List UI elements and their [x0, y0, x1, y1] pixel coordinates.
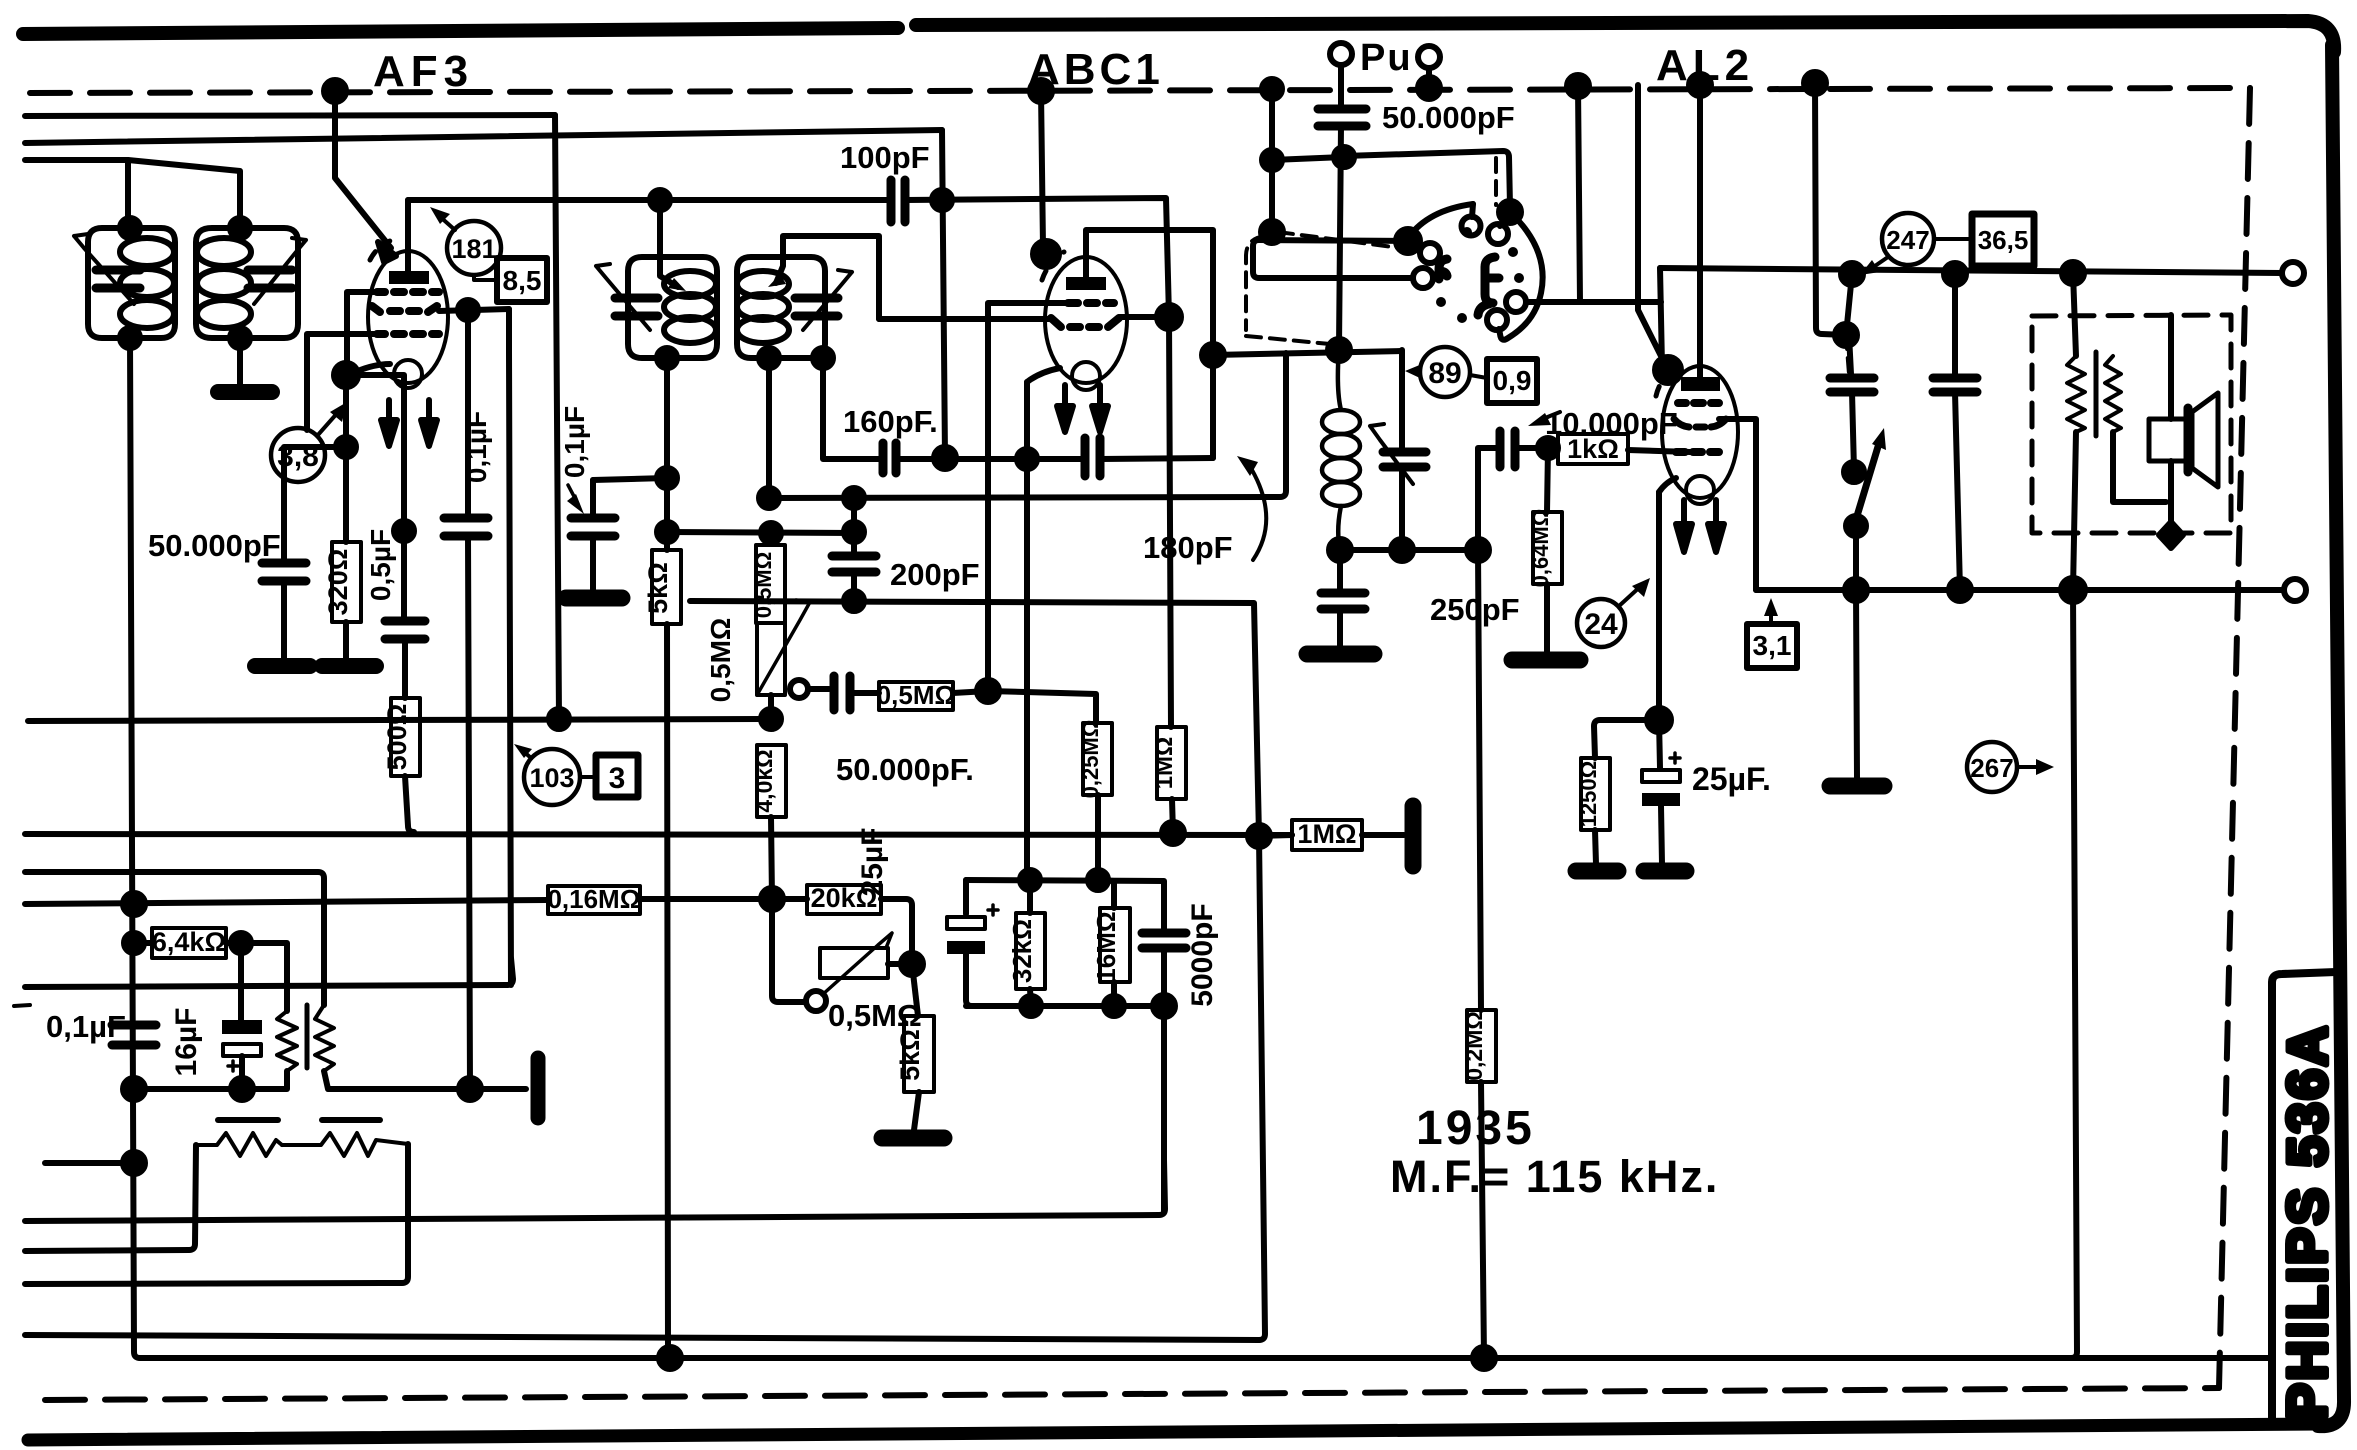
annotation arrow from 89: [1415, 370, 1420, 374]
svg-text:89: 89: [1428, 357, 1461, 390]
resistor 16M: [1100, 908, 1130, 982]
ground of L2: [218, 384, 272, 400]
node L4 bottom coil: [759, 348, 779, 368]
node rail273 x1955: [1944, 263, 1966, 285]
ground of 1250: [1576, 863, 1618, 880]
tube AF3 heater arrow right: [426, 400, 432, 428]
wire AF3 top cap lead: [405, 200, 411, 271]
capacitor output 2: [1933, 378, 1977, 392]
node AF3 on dashed frame: [324, 80, 346, 102]
node on dashed frame x1815: [1804, 72, 1826, 94]
node AVC bus at x1259: [1248, 825, 1270, 847]
wire switch to rail590: [1853, 526, 1859, 590]
svg-text:181: 181: [451, 234, 496, 264]
resistor 0,5M boxed horizontal: [850, 690, 879, 696]
svg-text:0,64MΩ: 0,64MΩ: [1528, 509, 1553, 588]
svg-text:247: 247: [1886, 225, 1929, 255]
ground of 250pF: [1307, 646, 1374, 663]
node AVC at 0,25M bottom rail: [1020, 870, 1040, 890]
wire 0,1uF second to ground: [590, 536, 596, 590]
wire screen drop x468 upper: [465, 310, 471, 515]
wire cap2 stem bottom to rail590: [1955, 392, 1960, 590]
wire grid-return elbow to 0,1uF2: [593, 478, 667, 480]
node tone pot right: [901, 953, 923, 975]
annotation circle 247: [1882, 213, 1934, 265]
wire AL2 cathode diagonal: [1659, 478, 1676, 492]
tube ABC1 heater arrow right: [1097, 385, 1103, 413]
node jog x1846: [1835, 324, 1857, 346]
wire 5k down long vertical: [667, 624, 674, 1358]
wire x134 to 6,4k: [134, 940, 152, 946]
svg-text:4,0kΩ: 4,0kΩ: [751, 749, 777, 812]
wire 10.000pF to 1k node: [1515, 445, 1548, 451]
mains dropper zigzag left: [196, 1133, 282, 1156]
annotation circle 181: [447, 221, 501, 275]
wire 1k to AL2 grid: [1628, 450, 1690, 452]
wire rail corner down to AL2: [1660, 268, 1662, 366]
PHILIPS 536A title box: [2272, 972, 2336, 1426]
svg-text:1MΩ: 1MΩ: [1297, 819, 1356, 849]
svg-text:320Ω: 320Ω: [323, 549, 353, 616]
variable capacitor C2 of L2: [248, 270, 292, 288]
wire 25uF det bottom: [966, 954, 972, 1006]
variable capacitor of L4: [795, 298, 838, 316]
switch contact circle c: [1488, 224, 1508, 244]
wire 16uF bottom: [239, 1056, 245, 1089]
tube AF3 top cap plate: [389, 271, 429, 284]
resistor 0,25M: [1083, 723, 1112, 795]
resistor 20k: [807, 885, 881, 914]
svg-text:103: 103: [529, 763, 574, 793]
wire detector ground rail y1006: [966, 1006, 1164, 1212]
svg-text:250pF: 250pF: [1430, 592, 1520, 627]
resistor 0,5M boxed (volume chain top): [756, 545, 785, 623]
wire 0,5uF to 500 ohm: [402, 639, 408, 698]
wire frame drop to switch x1578: [1578, 86, 1580, 302]
switch contact circle d: [1506, 292, 1526, 312]
wire wiper line to 0,25M: [988, 691, 1096, 723]
switch contact circle a: [1420, 243, 1440, 263]
svg-text:0,9: 0,9: [1493, 365, 1532, 396]
switch rotor segment left: [1439, 259, 1447, 279]
node ABC1 diode right junction: [1157, 305, 1181, 329]
wire bus y1337: [25, 1335, 1259, 1340]
capacitor 0,1uF heater: [112, 1025, 156, 1045]
coupling dashed to switch: [1278, 232, 1416, 250]
svg-text:0,16MΩ: 0,16MΩ: [547, 884, 640, 914]
tube AF3 base circle: [394, 360, 422, 388]
switch rotor segment right: [1478, 257, 1499, 315]
border top thick line right segment: [916, 21, 2334, 52]
tube AF3 envelope: [368, 251, 448, 383]
switch contact circle e: [1487, 310, 1507, 330]
node bus902 at pot riser: [761, 888, 783, 910]
svg-text:16µF: 16µF: [170, 1008, 203, 1077]
switch left arc stub and contact: [1472, 204, 1473, 217]
wire speaker bottom: [2168, 461, 2174, 528]
wire wiper to coupling cap: [808, 686, 829, 692]
node rail532 at pot: [761, 523, 781, 543]
node AVC bus at 1M: [1162, 822, 1184, 844]
node on dashed frame x1272: [1262, 79, 1282, 99]
wire L3 bottom down: [664, 358, 670, 478]
wire bottom bus y1358: [140, 1355, 2268, 1361]
mains dropper overline right: [322, 1117, 380, 1123]
resistor 5k (grid leak): [652, 550, 681, 624]
capacitor 250pF: [1321, 593, 1365, 609]
ground of 0,1uF second: [566, 590, 622, 607]
node 180pF left: [1017, 449, 1037, 469]
node osc rail left: [1328, 339, 1350, 361]
node bottom bus x1484: [1473, 1347, 1495, 1369]
wire long drop from rail590 to bottom bus: [2071, 590, 2077, 1358]
resistor 1k: [1558, 434, 1628, 464]
resistor 6,4k: [152, 928, 226, 958]
switch wave-band rotor left arc: [1408, 204, 1473, 238]
node L1 top: [120, 218, 140, 238]
node x1272 lower: [1261, 221, 1283, 243]
annotation box 36,5: [1972, 214, 2034, 266]
svg-text:5kΩ: 5kΩ: [643, 562, 673, 614]
tube ABC1 grid row 1 dashes: [1068, 299, 1114, 307]
svg-text:0,5µF: 0,5µF: [365, 529, 396, 601]
PU terminal circle left: [1330, 43, 1352, 65]
tube AF3 heater arrow left: [386, 400, 392, 428]
ground of 320 ohm: [322, 658, 376, 674]
variable capacitor of L3: [615, 298, 658, 316]
node switch top (to frame corner): [1499, 201, 1521, 223]
wire ABC1 diode row leads: [879, 317, 1169, 319]
wire AF3 row2-right second drop: [509, 309, 511, 985]
potentiometer wiper arm: [757, 600, 810, 695]
capacitor 180pF: [1085, 438, 1100, 476]
svg-text:180pF: 180pF: [1143, 530, 1233, 565]
capacitor 25uF electrolytic plus: [1670, 753, 1680, 763]
wire from frame dot down x1815: [1815, 83, 1846, 335]
node L3 grid-return: [657, 468, 677, 488]
node PU right lead on dashed frame: [1418, 77, 1440, 99]
node switch left input: [1396, 229, 1420, 253]
border bottom thick line: [28, 1424, 2320, 1440]
node x1272 mid: [1262, 150, 1282, 170]
wire L2 bottom to ground: [237, 338, 243, 385]
node osc rail at ABC1 top-cap drop: [1202, 344, 1224, 366]
wiper circle tone: [806, 991, 826, 1011]
wire pot body bottom to 4,0k: [768, 695, 774, 719]
wire 16uF top: [238, 943, 244, 1020]
tuned circuit L3 frame: [628, 257, 667, 358]
speaker field zigzag left: [2067, 356, 2085, 432]
wire AF3 designation line from dashed frame: [335, 91, 391, 248]
annotation circle 89: [1420, 347, 1470, 397]
resistor 32k: [1016, 913, 1045, 989]
resistor 0,2M: [1467, 1010, 1496, 1082]
wiper contact circle: [790, 680, 808, 698]
wire ABC1 grid1 left lead: [988, 303, 1068, 459]
wire 180pF leads: [1027, 458, 1213, 459]
svg-text:25µF.: 25µF.: [1692, 761, 1771, 797]
coupling dashed to tuning: [1246, 336, 1330, 344]
tuned circuit L3 coil (3 loops): [664, 271, 716, 297]
switch small dots: [1462, 227, 1472, 237]
wire frame drop x1272: [1269, 89, 1275, 232]
wire cathode node to 1250: [1594, 720, 1659, 758]
svg-text:160pF.: 160pF.: [843, 404, 938, 439]
mains dropper overline left: [218, 1117, 278, 1123]
wire bus1 drop x555: [555, 115, 559, 719]
capacitor 0,1uF (screen): [444, 518, 488, 536]
wire osc node down to 250pF: [1337, 550, 1343, 590]
wire rail590 below to ground: [1856, 590, 1857, 778]
wire PU right lead: [1426, 68, 1432, 88]
svg-text:16MΩ: 16MΩ: [1091, 911, 1121, 982]
wire B+ rail top y273: [1660, 268, 2282, 273]
node rail719 at x559: [549, 709, 569, 729]
wire bus y902 to 0,16M: [25, 900, 548, 904]
resistor 500 ohm: [391, 698, 420, 776]
node AL2 envelope top-left: [1655, 357, 1681, 383]
svg-text:0,1µF: 0,1µF: [559, 406, 590, 478]
tube ABC1 heater arrow left: [1062, 385, 1068, 413]
annotation box 0,9: [1487, 359, 1537, 403]
wire 6,4k right jog: [226, 943, 287, 1011]
tube ABC1 diode plates row: [1051, 318, 1119, 327]
wire heater line y891 to choke: [25, 872, 324, 1005]
capacitor 16uF electrolytic: [222, 1020, 262, 1034]
svg-text:0,1µF: 0,1µF: [46, 1009, 126, 1044]
wire PU cap down to osc rail: [1339, 126, 1341, 348]
wire 32k top: [1027, 880, 1033, 913]
annotation circle 103: [524, 749, 580, 805]
wire into switch left node: [1253, 240, 1413, 278]
tuned circuit L2 coil (3 loops): [197, 238, 251, 266]
wire AF3 row3 left lead: [307, 334, 377, 430]
svg-text:24: 24: [1584, 608, 1618, 641]
svg-text:36,5: 36,5: [1978, 225, 2029, 255]
capacitor 5000pF: [1142, 933, 1186, 948]
potentiometer 0,5M open body: [757, 623, 785, 695]
wire 25uF det stem: [963, 880, 969, 914]
wire 1M horizontal to ground: [1362, 832, 1404, 838]
wire cathode to 320 ohm: [343, 447, 349, 542]
svg-text:3,1: 3,1: [1753, 630, 1792, 661]
wire switch output to mixer: [1526, 299, 1661, 305]
capacitor 25uF detector electrolytic: [947, 917, 985, 929]
svg-text:0,5MΩ: 0,5MΩ: [705, 618, 736, 703]
wire 8,5 box to 181: [474, 275, 497, 280]
border top thick line left segment: [23, 28, 898, 34]
svg-text:5000pF: 5000pF: [1186, 903, 1219, 1006]
node 6,4k left: [124, 933, 144, 953]
svg-text:200pF: 200pF: [890, 557, 980, 592]
ground of 5k bias: [882, 1130, 944, 1147]
wire screen drop x468 lower: [468, 536, 470, 1089]
tube AL2 shield dashed arc: [1656, 368, 1676, 396]
wire antenna bus 1: [25, 115, 555, 116]
annotation arrow from 103: [522, 750, 531, 758]
ground sideways of 1M: [1405, 806, 1422, 866]
tuned circuit L4 frame: [769, 257, 825, 358]
node AF3 screen lead: [458, 300, 478, 320]
wire osc rail right drop to 0,2M: [1478, 550, 1481, 1010]
wire 500 ohm to AVC bus: [405, 776, 414, 832]
wire zigzag right bottom jog: [2113, 432, 2166, 502]
wire x1272 to PU cap: [1272, 157, 1344, 160]
wire 16M bottom: [1111, 982, 1117, 1006]
node anode line junction: [650, 190, 670, 210]
node osc bottom right: [1467, 539, 1489, 561]
annotation arrow from 24: [1619, 585, 1642, 606]
svg-text:100pF: 100pF: [840, 140, 930, 175]
wire 100pF right to ABC1 rail: [905, 198, 1169, 317]
tuned circuit L4 coil (3 loops): [737, 271, 789, 297]
tube AL2 grid3 dashes: [1676, 448, 1719, 456]
node L3 bottom: [657, 348, 677, 368]
node ABC1 on dashed frame: [1030, 80, 1052, 102]
resistor 1M horizontal: [1292, 820, 1362, 850]
tone switch lever: [1857, 440, 1880, 516]
tube AL2 envelope: [1662, 366, 1738, 498]
wire heater return y1089: [134, 1071, 287, 1089]
svg-text:20kΩ: 20kΩ: [811, 883, 878, 913]
wire AL2 anode lead right and down: [1719, 419, 1756, 590]
wire 0,16M to 20k: [640, 896, 807, 902]
wire suppressor to 0,5uF chain: [346, 375, 404, 530]
wire choke right top to bus: [321, 891, 327, 1005]
svg-text:50.000pF: 50.000pF: [1382, 100, 1515, 135]
choke core bar: [305, 1005, 310, 1068]
ground of 25uF: [1644, 863, 1686, 880]
oscillator coil L5: [1338, 348, 1341, 410]
variable capacitor osc: [1399, 350, 1405, 450]
wire 1M vertical bottom: [1172, 799, 1173, 833]
speaker dashed enclosure: [2032, 315, 2231, 533]
tube ABC1 base circle: [1072, 362, 1100, 390]
annotation arrow from 3,8: [317, 410, 340, 436]
node 200pF bottom: [844, 591, 864, 611]
wire 89 to box 0,9: [1470, 375, 1487, 378]
wire 5k bias to ground: [914, 1092, 919, 1130]
node osc bottom mid: [1391, 539, 1413, 561]
wire junction down to L3 tap: [660, 200, 678, 287]
node tone switch top: [1844, 462, 1864, 482]
wire L1 bottom long vertical to bottom bus: [130, 338, 140, 1358]
node heater bus at x134: [123, 893, 145, 915]
resistor 5k bias: [904, 1016, 934, 1092]
node rail273 x1852: [1841, 263, 1863, 285]
node L2 top: [230, 218, 250, 238]
svg-text:Pu: Pu: [1360, 37, 1413, 79]
wire 10.000pF left leg: [1478, 448, 1496, 550]
annotation circle 24: [1577, 599, 1625, 647]
tuned circuit L1 coil (3 loops): [120, 238, 174, 266]
wire bus2 drop: [942, 130, 945, 458]
node AF3 envelope top-left: [378, 242, 396, 262]
tap arrowhead into L3: [668, 278, 686, 291]
svg-text:AF3: AF3: [373, 47, 474, 96]
wire AL2 designation line from dashed frame: [1638, 85, 1664, 362]
svg-text:1kΩ: 1kΩ: [1567, 434, 1619, 464]
wire osc bottom rail: [1340, 547, 1478, 553]
capacitor 50.000pF coupling: [834, 676, 850, 710]
wire 50.000pF to ground: [281, 581, 287, 660]
tube AL2 grid row dashes: [1678, 399, 1719, 407]
annotation box 3: [596, 755, 638, 797]
wire AVC bus y832: [25, 834, 1292, 835]
node bottom bus x668: [659, 1347, 681, 1369]
wire 16M top: [1098, 880, 1114, 908]
wire to 50.000pF cap: [284, 447, 346, 560]
svg-text:50.000pF.: 50.000pF.: [836, 752, 974, 787]
node at bus2 drop: [934, 447, 956, 469]
wire AVC bus to 1M horizontal: [1259, 835, 1292, 836]
wire L3 node to 5k chain: [664, 478, 670, 550]
wire zigzag left down to rail: [2073, 432, 2076, 590]
wire dropper left end down to bus: [25, 1145, 196, 1251]
node L2 bottom: [230, 328, 250, 348]
svg-text:0,1µF: 0,1µF: [461, 411, 492, 483]
wire AF3 grid1 left lead: [347, 292, 377, 365]
ground sideways right of choke: [531, 1058, 546, 1118]
capacitor 10.000pF: [1500, 431, 1515, 467]
wire antenna lead: [25, 160, 128, 228]
tap arrowhead into L4: [768, 274, 786, 287]
wire L2 top lead: [128, 160, 240, 228]
wire ABC1 cathode diagonal: [1027, 368, 1060, 382]
wire pot right to node: [888, 961, 912, 967]
wire node to pot bus: [401, 531, 407, 618]
ground right x1857: [1830, 778, 1884, 795]
annotation circle 3,8: [271, 428, 325, 482]
wire 25uF to ground: [1661, 806, 1662, 864]
wire node up to rail: [1846, 274, 1852, 335]
tube AL2 base circle: [1686, 476, 1714, 504]
wire 32k bottom: [1030, 989, 1031, 1006]
wire output rail y590: [1756, 587, 2284, 593]
svg-text:32kΩ: 32kΩ: [1007, 919, 1037, 983]
capacitor output 1: [1830, 378, 1874, 392]
svg-text:0,25MΩ: 0,25MΩ: [1078, 720, 1103, 799]
svg-text:500Ω: 500Ω: [382, 704, 412, 771]
annotation arrow from 267: [2017, 765, 2040, 769]
wire 200pF stem bottom: [851, 572, 857, 601]
wire AL2 cathode down: [1656, 492, 1662, 720]
wire x1259 down to bottom rail: [1259, 836, 1265, 1340]
wire node down to 5k: [912, 964, 918, 1016]
node pot bottom junction: [761, 709, 781, 729]
wire AF3 row2 right lead: [439, 309, 509, 311]
node det rail 5000pF: [1153, 995, 1175, 1017]
svg-text:M.F.= 115 kHz.: M.F.= 115 kHz.: [1390, 1151, 1719, 1202]
wire PU node to switch corner: [1344, 151, 1510, 206]
wire cathode node down to 25uF: [1659, 720, 1660, 768]
svg-text:0,5MΩ: 0,5MΩ: [877, 680, 956, 710]
terminal circle top right: [2282, 262, 2304, 284]
wire AL2 top cap lead: [1697, 85, 1703, 377]
tube ABC1 envelope: [1045, 257, 1127, 383]
border right thick line: [2318, 45, 2344, 1426]
terminal circle right lower: [2284, 579, 2306, 601]
wire rail y532: [667, 532, 854, 533]
wire L4 coil bottom down: [766, 358, 772, 498]
wire 0,2M down to bottom bus: [1481, 1082, 1484, 1358]
wire rail y601: [690, 601, 1259, 836]
wire AF3 cathode diagonal: [347, 364, 390, 376]
resistor 0,64M: [1533, 512, 1562, 584]
choke zigzag right: [315, 1005, 334, 1071]
frame top dashed line: [30, 88, 2250, 93]
node 0,25M bottom: [1088, 870, 1108, 890]
